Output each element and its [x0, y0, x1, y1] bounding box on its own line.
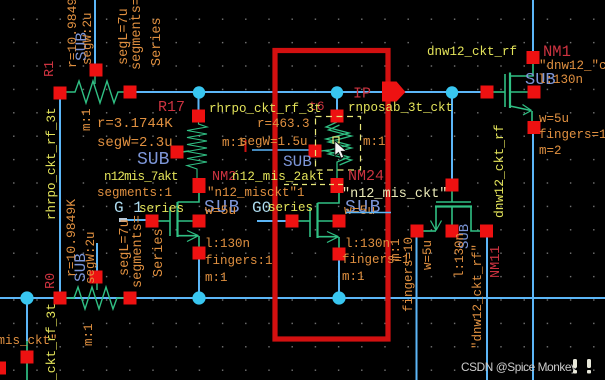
label R16 partial [309, 99, 325, 114]
label n12_mis_2_ckt jumble [232, 170, 324, 184]
label dnw12_ckt_rf cell NM11 vertical [492, 124, 507, 218]
svg-text:w=5u: w=5u [205, 203, 236, 218]
label r=463.3 [257, 117, 310, 131]
pin squares R17 [171, 110, 206, 194]
watermark CSDN Spice Monkey [461, 359, 591, 374]
svg-text:segW:2u: segW:2u [84, 231, 98, 284]
wire SUB underline G0 [346, 212, 391, 214]
label segL=7u R0 vertical [118, 219, 133, 276]
label net n12_mis_ckt bottom-left [0, 334, 58, 348]
label w=5u G1 [205, 203, 236, 218]
svg-text:Series: Series [152, 228, 167, 277]
label r=10.9849K R0 vertical [64, 199, 79, 277]
pin squares NM11 [411, 179, 494, 238]
wire G0 gate stub [257, 220, 287, 222]
wire G1 source down [198, 256, 200, 298]
label SUB R1 vertical [73, 32, 91, 61]
svg-text:m:1: m:1 [82, 323, 96, 346]
svg-text:NM24: NM24 [348, 168, 384, 185]
pin IP arrow [382, 82, 406, 102]
wire left vertical R1 to R0 [59, 92, 61, 298]
svg-text:segW:2u: segW:2u [81, 12, 95, 65]
label dnw12_ckt_rf cell NM1 [427, 45, 517, 59]
wire NM24 SUB stub [252, 149, 310, 151]
svg-text:segments=: segments= [131, 215, 146, 288]
label fingers=10 NM11 vertical [402, 237, 416, 312]
label NM1 name [543, 43, 571, 61]
label series G0 [268, 201, 313, 215]
svg-text:l:130n: l:130n [453, 233, 467, 278]
svg-text:dnw12_ckt_rf: dnw12_ckt_rf [492, 124, 507, 218]
label l:130n NM1 [538, 73, 583, 87]
wire NM11 drain down to bottom edge [486, 236, 488, 380]
label G1 name [114, 199, 143, 217]
svg-text:"dnw12_ckt_rf": "dnw12_ckt_rf" [471, 244, 485, 349]
svg-text:rhrpo_ckt_rf_3t: rhrpo_ckt_rf_3t [44, 303, 59, 380]
pin bottom-left lead [26, 341, 28, 380]
svg-text:CSDN @Spice Monkey: CSDN @Spice Monkey [461, 360, 577, 374]
label SUB R17 [137, 150, 170, 170]
wire NM1 drain up to top edge [532, 0, 534, 53]
label r=10.9849 R1 vertical [65, 0, 80, 68]
svg-text:SUB: SUB [137, 150, 170, 170]
wire NM11 source down to bottom edge [416, 236, 418, 380]
label fingers=1 G0 [342, 253, 410, 267]
label net rhrpo_ckt_rf_3t left vertical [45, 107, 59, 220]
svg-text:m:1: m:1 [80, 108, 94, 131]
label l:130n G1 [205, 237, 250, 251]
node junction dot top rnposab [331, 86, 343, 98]
transistor NM11 [423, 190, 482, 231]
label NM2 name [212, 170, 236, 185]
svg-text:R17: R17 [158, 99, 185, 116]
label Series R0 vertical [152, 228, 167, 277]
wire R0 SUB stub [96, 243, 98, 272]
transistor G1 [155, 188, 199, 249]
wire top net IP horizontal [130, 91, 490, 93]
label NM11 name vertical [489, 246, 504, 278]
svg-text:fingers=1: fingers=1 [539, 128, 605, 142]
origin marker NM24 [333, 137, 339, 143]
label m:1 R0 vertical [82, 323, 96, 346]
label l:130n NM11 vertical [453, 233, 467, 278]
label n12_mis_7_ckt jumble [104, 170, 178, 184]
svg-text:w=5u: w=5u [539, 112, 569, 126]
svg-text:m:1: m:1 [363, 135, 386, 149]
wire bottom-left branch down [26, 298, 28, 341]
label NM24 name [348, 168, 384, 185]
selection rectangle red box [275, 51, 388, 340]
label r=3.1744K [97, 116, 173, 132]
label m:1 G0 [342, 270, 365, 284]
label R0 name vertical [44, 273, 59, 289]
svg-text:fingers:1: fingers:1 [205, 254, 273, 268]
label Series R1 vertical [150, 17, 165, 66]
svg-text:w=5u: w=5u [344, 203, 375, 218]
svg-text:R1: R1 [43, 61, 58, 77]
svg-text:segW=2.3u: segW=2.3u [97, 135, 173, 151]
label net n12_mis_ckt quoted right [342, 187, 447, 202]
svg-text:NM11: NM11 [489, 246, 504, 278]
label rnposab_3t_ckt cell [348, 101, 453, 115]
label SUB NM1 [525, 71, 556, 90]
svg-text:m=2: m=2 [539, 144, 562, 158]
label R17 name [158, 99, 185, 116]
node junction dot top R17 [193, 86, 205, 98]
pin square bottom-left branch [0, 351, 34, 375]
label net dnw12 quoted NM1 [539, 59, 605, 73]
transistor NM1 [490, 62, 533, 122]
pin squares G1 [146, 215, 206, 260]
svg-text:series: series [268, 201, 313, 215]
label SUB R0 vertical [72, 253, 90, 282]
wire G1 gate stub [119, 218, 147, 222]
label segW=2.3u [97, 135, 173, 151]
label m=2 NM1 [539, 144, 562, 158]
label segL=7u R1 vertical [117, 8, 132, 65]
svg-text:dnw12_ckt_rf: dnw12_ckt_rf [427, 45, 517, 59]
label net dnw12_ckt_rf quoted NM11 vertical [471, 244, 485, 349]
pin squares G0 [286, 215, 346, 261]
mouse cursor [335, 141, 347, 158]
label w=5u NM1 [539, 112, 569, 126]
wire ghost dashed NM24 bottom [284, 184, 344, 186]
svg-text:n12mis_7akt: n12mis_7akt [104, 170, 178, 184]
label m:1 R1 vertical [80, 108, 94, 131]
svg-text:r=3.1744K: r=3.1744K [97, 116, 173, 132]
svg-text:series: series [139, 202, 184, 216]
label SUB G1 [204, 198, 241, 218]
label rhrpo_ckt_rf_3t cell [209, 102, 322, 116]
label fingers=1 NM1 [539, 128, 605, 142]
label m:1 NM11 vertical [389, 238, 403, 261]
svg-text:rhrpo_ckt_rf_3t: rhrpo_ckt_rf_3t [45, 107, 59, 220]
selection dashed box around NM24 [316, 117, 361, 171]
svg-text:segW=1.5u: segW=1.5u [240, 135, 308, 149]
label R1 name vertical [43, 61, 58, 77]
svg-text:SUB: SUB [283, 153, 312, 171]
label SUB G0 [345, 198, 382, 218]
label SUB NM11 vertical [457, 224, 473, 249]
svg-text:m:1: m:1 [205, 271, 228, 285]
node junction dot bottom G1 [192, 291, 205, 304]
wire R17 top stub [198, 92, 200, 112]
wire G0 source down [338, 258, 340, 298]
svg-text:fingers=10: fingers=10 [402, 237, 416, 312]
pin squares R1 [54, 64, 137, 100]
label m:1 G1 [205, 271, 228, 285]
label segW=1.5u [240, 135, 308, 149]
label segments= R1 vertical [130, 0, 145, 70]
svg-text:R0: R0 [44, 273, 59, 289]
wire rnposab top stub [336, 92, 338, 112]
resistor R17 body [182, 112, 207, 186]
svg-text:m:1: m:1 [342, 270, 365, 284]
svg-text:segments=: segments= [130, 0, 145, 70]
label segW:2u R0 vertical [84, 231, 98, 284]
label l:130n G0 [345, 237, 390, 251]
label w=5u G0 [344, 203, 375, 218]
label series G1 [139, 202, 184, 216]
label net rhrpo bottom-left vertical [44, 303, 59, 380]
label net n12_mis_ckt quoted left [207, 186, 305, 200]
svg-text:l:130n: l:130n [345, 237, 390, 251]
svg-text:segments:1: segments:1 [97, 186, 172, 200]
svg-text:l:130n: l:130n [538, 73, 583, 87]
wire red tick [245, 140, 247, 152]
wire NM1 source down to bottom edge [532, 133, 534, 380]
svg-text:r=463.3: r=463.3 [257, 117, 310, 131]
svg-text:IP: IP [353, 86, 371, 103]
wire R1 SUB up to top edge [94, 0, 96, 66]
label G0 name [252, 199, 271, 217]
svg-text:l:130n: l:130n [205, 237, 250, 251]
wire NM11 gate vertical [451, 92, 453, 181]
label SUB NM24 [283, 153, 312, 171]
node junction dot bottom G0 [332, 291, 345, 304]
label m:1 NM24 [363, 135, 386, 149]
pin squares NM1 [481, 51, 541, 134]
transistor G0 [295, 189, 339, 250]
svg-text:w=5u: w=5u [421, 240, 435, 270]
label IP [353, 86, 371, 103]
label segments= R0 vertical [131, 215, 146, 288]
node junction dot top NM11 gate [446, 86, 458, 98]
svg-text:m:1: m:1 [389, 238, 403, 261]
wire bottom net horizontal [0, 297, 605, 299]
svg-text:rhrpo_ckt_rf_3t: rhrpo_ckt_rf_3t [209, 102, 322, 116]
label fingers:1 G1 [205, 254, 273, 268]
pin squares rnposab NM24 [309, 110, 344, 194]
label segW:2u R1 vertical [81, 12, 95, 65]
resistor R0 body [60, 282, 130, 309]
svg-text:ń12_mis_2akt: ń12_mis_2akt [232, 170, 324, 184]
pin squares R0 [54, 271, 137, 305]
node junction dot bottom left [20, 291, 33, 304]
label m:1 R17 [222, 136, 245, 150]
label w=5u NM11 vertical [421, 240, 435, 270]
svg-text:Series: Series [150, 17, 165, 66]
resistor NM24 rnposab body [321, 112, 352, 185]
svg-text:rnposab_3t_ckt: rnposab_3t_ckt [348, 101, 453, 115]
label segments:1 G1 [97, 186, 172, 200]
resistor R1 body [60, 76, 130, 103]
